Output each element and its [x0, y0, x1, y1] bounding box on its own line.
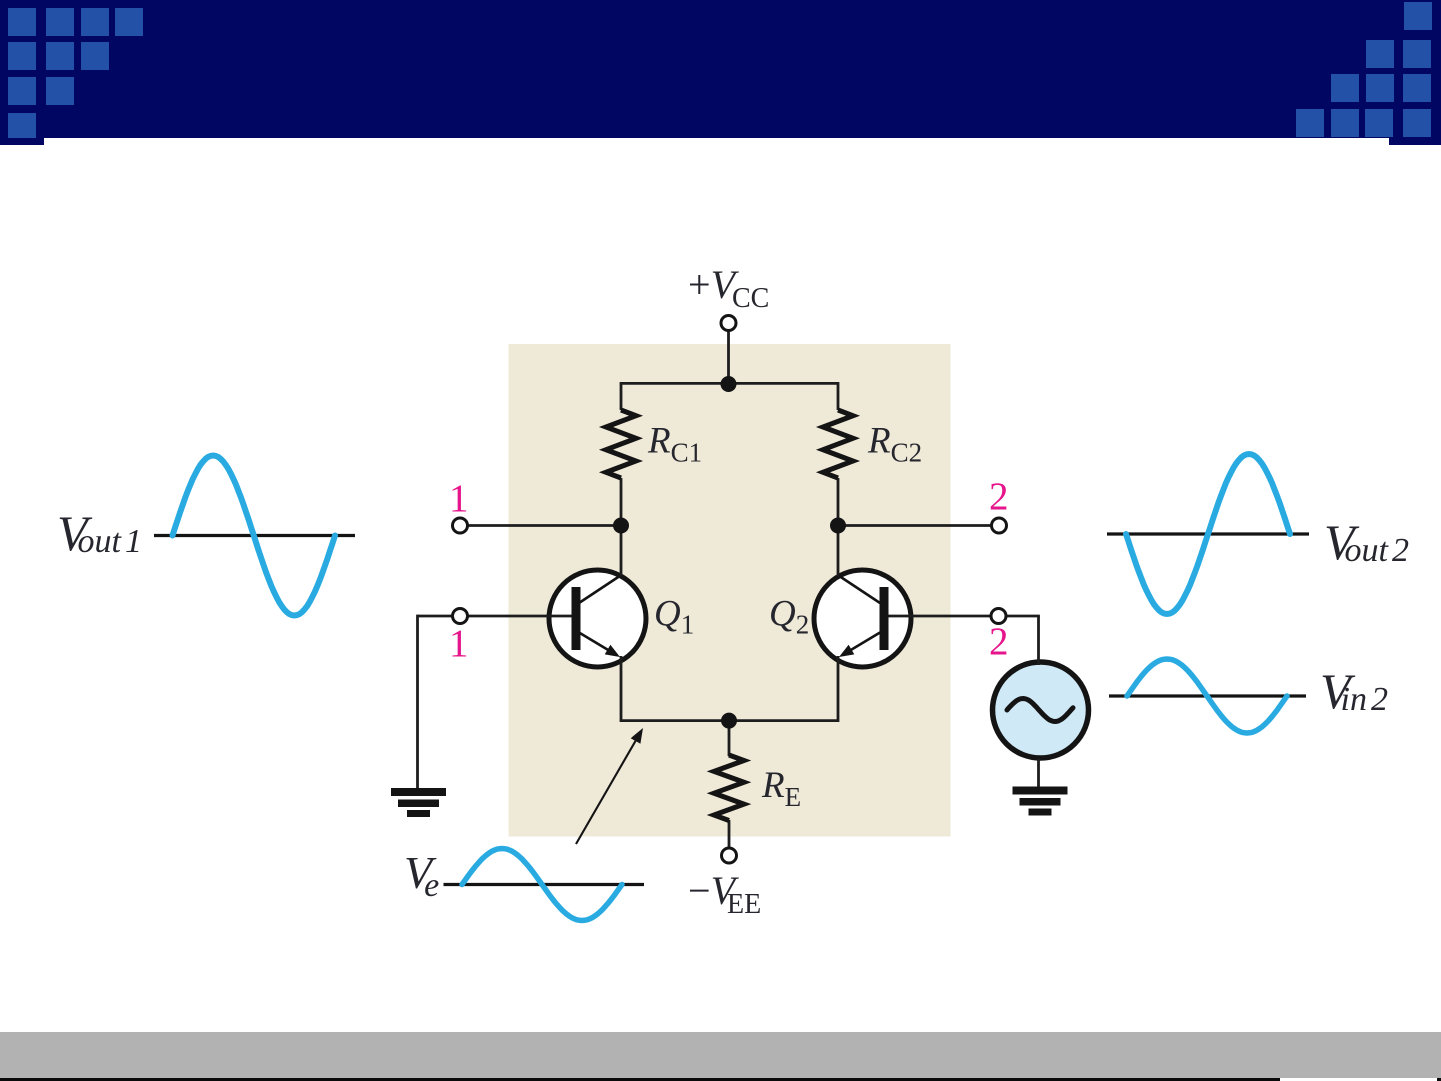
- svg-text:+VCC: +VCC: [688, 262, 769, 314]
- svg-text:1: 1: [449, 622, 469, 665]
- svg-text:1: 1: [449, 477, 469, 520]
- svg-text:Vin2: Vin2: [1320, 663, 1388, 719]
- svg-text:2: 2: [989, 620, 1009, 663]
- svg-text:Vout1: Vout1: [57, 505, 142, 561]
- svg-text:Vout2: Vout2: [1324, 514, 1409, 570]
- svg-text:2: 2: [989, 475, 1009, 518]
- svg-text:Ve: Ve: [404, 847, 439, 904]
- svg-text:−VEE: −VEE: [688, 868, 761, 920]
